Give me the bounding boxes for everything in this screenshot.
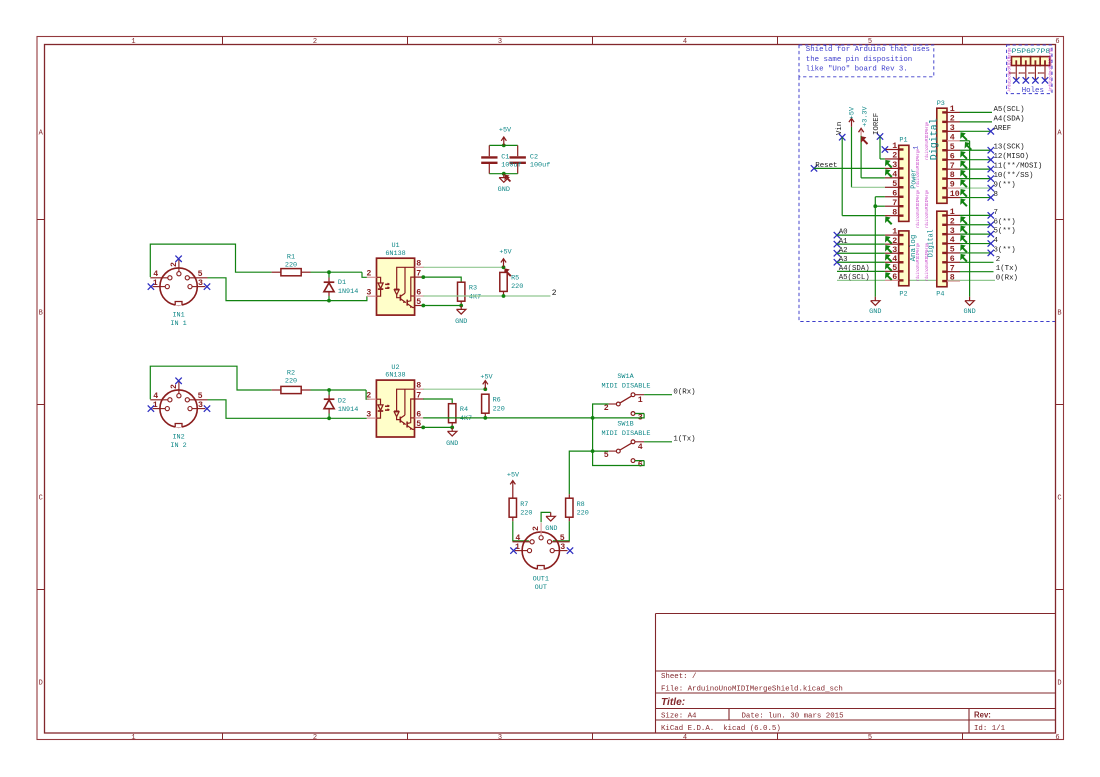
- svg-text:6N138: 6N138: [385, 250, 405, 258]
- svg-text:+3.3V: +3.3V: [861, 105, 869, 126]
- svg-text:rduinoUnoMIDIMerge: rduinoUnoMIDIMerge: [925, 243, 930, 281]
- svg-text:7: 7: [416, 270, 421, 279]
- svg-text:Rev:: Rev:: [974, 711, 991, 720]
- svg-text:B: B: [39, 310, 43, 318]
- svg-text:MIDI DISABLE: MIDI DISABLE: [602, 382, 651, 390]
- svg-text:P2: P2: [899, 290, 907, 298]
- svg-text:7: 7: [892, 199, 897, 208]
- svg-text:B: B: [1057, 310, 1061, 318]
- svg-text:R3: R3: [469, 285, 477, 293]
- svg-text:Vin: Vin: [836, 122, 844, 135]
- svg-text:4: 4: [892, 170, 897, 179]
- svg-text:5: 5: [560, 534, 565, 543]
- svg-text:GND: GND: [869, 308, 881, 316]
- svg-text:R7: R7: [520, 501, 528, 509]
- svg-text:C1: C1: [501, 153, 509, 161]
- svg-text:Id: 1/1: Id: 1/1: [974, 725, 1006, 733]
- svg-text:5: 5: [892, 264, 897, 273]
- svg-text:3: 3: [198, 279, 203, 288]
- svg-text:ArduinoUnoMIDIMerge: ArduinoUnoMIDIMerge: [1008, 47, 1013, 91]
- svg-text:D: D: [1057, 680, 1061, 688]
- svg-text:rduinoUnoMIDIMerge: rduinoUnoMIDIMerge: [925, 122, 930, 160]
- svg-text:2: 2: [604, 404, 609, 413]
- svg-text:5(**): 5(**): [994, 228, 1016, 236]
- svg-text:2: 2: [552, 289, 557, 298]
- svg-text:2: 2: [950, 114, 955, 123]
- svg-text:AREF: AREF: [994, 125, 1012, 133]
- svg-text:5: 5: [604, 451, 609, 460]
- svg-text:R8: R8: [577, 501, 585, 509]
- svg-text:R4: R4: [460, 406, 468, 414]
- svg-text:3: 3: [366, 289, 371, 298]
- svg-text:R2: R2: [287, 370, 295, 378]
- svg-text:OUT: OUT: [535, 584, 547, 592]
- svg-text:6: 6: [950, 152, 955, 161]
- svg-text:4K7: 4K7: [469, 293, 481, 301]
- svg-text:C: C: [1057, 495, 1061, 503]
- svg-text:Size: A4: Size: A4: [661, 713, 697, 721]
- svg-text:1N914: 1N914: [338, 288, 358, 296]
- svg-text:4: 4: [950, 236, 955, 245]
- svg-text:A0: A0: [839, 229, 848, 237]
- svg-text:0(Rx): 0(Rx): [996, 275, 1018, 283]
- svg-text:8: 8: [416, 382, 421, 391]
- svg-text:4: 4: [683, 38, 687, 46]
- svg-text:1: 1: [131, 38, 135, 46]
- svg-text:13(SCK): 13(SCK): [994, 144, 1025, 152]
- svg-text:3: 3: [950, 124, 955, 133]
- svg-text:P1: P1: [899, 136, 907, 144]
- svg-text:A5(SCL): A5(SCL): [994, 106, 1025, 114]
- svg-text:Title:: Title:: [661, 697, 685, 708]
- svg-text:1(Tx): 1(Tx): [673, 435, 695, 443]
- svg-text:IN 1: IN 1: [170, 320, 186, 328]
- svg-text:4: 4: [892, 255, 897, 264]
- svg-text:5: 5: [198, 270, 203, 279]
- svg-text:2: 2: [532, 526, 541, 531]
- svg-text:220: 220: [493, 405, 505, 413]
- svg-text:4K7: 4K7: [460, 415, 472, 423]
- svg-text:220: 220: [520, 510, 532, 518]
- svg-text:4: 4: [153, 270, 158, 279]
- svg-text:D2: D2: [338, 397, 346, 405]
- svg-text:2: 2: [892, 237, 897, 246]
- svg-text:rduinoUnoMIDIMerge: rduinoUnoMIDIMerge: [916, 190, 921, 228]
- svg-text:7: 7: [416, 391, 421, 400]
- svg-text:+5V: +5V: [849, 106, 857, 119]
- svg-text:P5P6P7P8: P5P6P7P8: [1012, 48, 1051, 55]
- svg-text:6: 6: [892, 273, 897, 282]
- svg-text:R6: R6: [493, 397, 501, 405]
- svg-text:5: 5: [868, 734, 872, 742]
- svg-text:2: 2: [170, 262, 179, 267]
- svg-text:7: 7: [950, 264, 955, 273]
- svg-text:C: C: [39, 495, 43, 503]
- svg-text:A5(SCL): A5(SCL): [839, 274, 870, 282]
- svg-text:Holes: Holes: [1022, 87, 1044, 95]
- svg-text:rduinoUnoMIDIMerge: rduinoUnoMIDIMerge: [916, 243, 921, 281]
- svg-text:4: 4: [994, 237, 999, 245]
- svg-text:Digital: Digital: [929, 118, 941, 160]
- svg-text:10(**/SS): 10(**/SS): [994, 172, 1034, 180]
- svg-text:GND: GND: [446, 440, 458, 448]
- svg-text:4: 4: [950, 133, 955, 142]
- svg-text:11(**/MOSI): 11(**/MOSI): [994, 163, 1043, 171]
- svg-text:6(**): 6(**): [994, 218, 1016, 226]
- svg-text:GND: GND: [498, 186, 510, 194]
- svg-text:5: 5: [198, 392, 203, 401]
- svg-text:C2: C2: [530, 153, 538, 161]
- svg-text:220: 220: [577, 510, 589, 518]
- svg-text:U2: U2: [391, 364, 399, 372]
- svg-text:R5: R5: [511, 275, 519, 283]
- svg-text:3(**): 3(**): [994, 246, 1016, 254]
- svg-text:Reset: Reset: [815, 162, 837, 170]
- svg-text:File: ArduinoUnoMIDIMergeShiel: File: ArduinoUnoMIDIMergeShield.kicad_sc…: [661, 686, 843, 694]
- svg-text:+5V: +5V: [507, 471, 520, 479]
- svg-text:P4: P4: [936, 290, 944, 298]
- svg-text:100uf: 100uf: [530, 161, 550, 169]
- svg-text:1: 1: [638, 396, 643, 405]
- svg-text:12(MISO): 12(MISO): [994, 153, 1029, 161]
- svg-text:Date: lun. 30 mars 2015: Date: lun. 30 mars 2015: [742, 713, 844, 721]
- svg-text:100uf: 100uf: [501, 161, 521, 169]
- svg-text:1: 1: [131, 734, 135, 742]
- svg-text:5: 5: [950, 143, 955, 152]
- svg-text:3: 3: [366, 411, 371, 420]
- svg-text:Shield for Arduino that uses: Shield for Arduino that uses: [806, 46, 930, 54]
- svg-text:+5V: +5V: [499, 127, 512, 135]
- svg-text:Sheet: /: Sheet: /: [661, 673, 697, 681]
- svg-text:A1: A1: [839, 238, 848, 246]
- svg-text:6: 6: [416, 410, 421, 419]
- svg-text:9: 9: [950, 181, 955, 190]
- svg-text:1: 1: [950, 208, 955, 217]
- svg-text:2: 2: [996, 256, 1000, 264]
- svg-text:5: 5: [892, 180, 897, 189]
- svg-text:4: 4: [515, 534, 520, 543]
- svg-text:2: 2: [950, 217, 955, 226]
- svg-text:GND: GND: [545, 525, 557, 533]
- svg-text:A3: A3: [839, 256, 848, 264]
- svg-text:+5V: +5V: [480, 374, 493, 382]
- svg-text:220: 220: [285, 378, 297, 386]
- svg-text:2: 2: [313, 38, 317, 46]
- svg-text:the same pin disposition: the same pin disposition: [806, 56, 912, 64]
- svg-text:5: 5: [950, 246, 955, 255]
- svg-text:220: 220: [511, 283, 523, 291]
- svg-text:10: 10: [950, 190, 960, 199]
- svg-text:+5V: +5V: [499, 249, 512, 257]
- svg-text:8: 8: [416, 260, 421, 269]
- svg-text:4: 4: [683, 734, 687, 742]
- svg-text:6N138: 6N138: [385, 372, 405, 380]
- svg-text:2: 2: [366, 392, 371, 401]
- svg-text:4: 4: [638, 443, 643, 452]
- svg-text:8: 8: [950, 171, 955, 180]
- svg-text:1: 1: [515, 543, 520, 552]
- svg-text:rduinoUnoMIDIMerge: rduinoUnoMIDIMerge: [925, 190, 930, 228]
- svg-text:A2: A2: [839, 247, 848, 255]
- svg-text:rduinoUnoMIDIMerge: rduinoUnoMIDIMerge: [916, 149, 921, 187]
- svg-text:1: 1: [950, 105, 955, 114]
- svg-text:SW1B: SW1B: [617, 421, 633, 429]
- svg-text:8: 8: [950, 274, 955, 283]
- svg-text:9(**): 9(**): [994, 182, 1016, 190]
- svg-text:KiCad E.D.A. kicad (6.0.5): KiCad E.D.A. kicad (6.0.5): [661, 725, 781, 733]
- svg-text:GND: GND: [455, 318, 467, 326]
- svg-text:IOREF: IOREF: [873, 113, 881, 135]
- svg-text:1: 1: [892, 142, 897, 151]
- svg-text:R1: R1: [287, 254, 295, 262]
- svg-text:3: 3: [950, 227, 955, 236]
- svg-text:5: 5: [416, 420, 421, 429]
- svg-text:2: 2: [892, 152, 897, 161]
- svg-text:ArduinoUnoMIDIMerge: ArduinoUnoMIDIMerge: [1049, 47, 1054, 91]
- svg-text:2: 2: [170, 384, 179, 389]
- svg-text:3: 3: [498, 734, 502, 742]
- svg-text:IN 2: IN 2: [170, 442, 186, 450]
- svg-text:MIDI DISABLE: MIDI DISABLE: [602, 430, 651, 438]
- svg-text:GND: GND: [963, 308, 975, 316]
- svg-text:1: 1: [892, 228, 897, 237]
- svg-text:8: 8: [892, 208, 897, 217]
- svg-text:7: 7: [994, 209, 998, 217]
- svg-text:like "Uno" board Rev 3.: like "Uno" board Rev 3.: [806, 65, 908, 73]
- svg-text:220: 220: [285, 262, 297, 270]
- svg-text:2: 2: [366, 270, 371, 279]
- svg-text:A4(SDA): A4(SDA): [994, 115, 1025, 123]
- svg-text:4: 4: [153, 392, 158, 401]
- svg-text:3: 3: [892, 161, 897, 170]
- svg-text:2: 2: [313, 734, 317, 742]
- svg-text:7: 7: [950, 162, 955, 171]
- svg-text:3: 3: [498, 38, 502, 46]
- svg-text:IN1: IN1: [172, 311, 184, 319]
- svg-text:D1: D1: [338, 279, 346, 287]
- svg-text:1N914: 1N914: [338, 406, 358, 414]
- svg-text:3: 3: [560, 543, 565, 552]
- svg-text:6: 6: [1055, 734, 1059, 742]
- svg-text:U1: U1: [391, 242, 399, 250]
- svg-text:1(Tx): 1(Tx): [996, 265, 1018, 273]
- svg-text:3: 3: [892, 246, 897, 255]
- svg-text:6: 6: [1055, 38, 1059, 46]
- svg-text:6: 6: [416, 288, 421, 297]
- svg-text:SW1A: SW1A: [617, 373, 634, 381]
- svg-text:P3: P3: [937, 100, 945, 108]
- svg-text:5: 5: [416, 298, 421, 307]
- svg-text:OUT1: OUT1: [533, 575, 549, 583]
- svg-text:6: 6: [892, 189, 897, 198]
- svg-text:3: 3: [198, 401, 203, 410]
- svg-text:0(Rx): 0(Rx): [673, 388, 695, 396]
- svg-text:8: 8: [994, 191, 998, 199]
- svg-text:IN2: IN2: [172, 433, 184, 441]
- svg-text:D: D: [39, 680, 43, 688]
- svg-text:6: 6: [950, 255, 955, 264]
- svg-text:1: 1: [913, 146, 920, 150]
